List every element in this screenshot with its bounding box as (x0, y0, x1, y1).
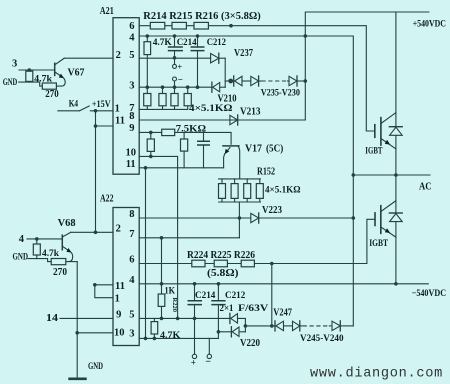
svg-text:1: 1 (115, 293, 120, 304)
svg-text:−: − (205, 356, 211, 367)
svg-text:IGBT: IGBT (365, 147, 383, 157)
svg-text:4: 4 (19, 234, 25, 245)
svg-text:+: + (178, 63, 183, 72)
svg-text:270: 270 (53, 267, 67, 278)
svg-text:11: 11 (115, 115, 125, 126)
svg-text:R214 R215 R216 (3×5.8Ω): R214 R215 R216 (3×5.8Ω) (143, 11, 260, 22)
svg-text:A21: A21 (100, 5, 114, 17)
svg-text:+: + (191, 357, 196, 367)
svg-text:1: 1 (115, 104, 120, 115)
svg-text:V213: V213 (240, 107, 261, 118)
svg-text:1K: 1K (165, 286, 176, 296)
svg-text:5: 5 (129, 309, 134, 320)
svg-text:+15V: +15V (92, 100, 111, 110)
svg-text:4.7k: 4.7k (42, 249, 60, 259)
svg-text:8: 8 (129, 209, 134, 220)
svg-text:V220: V220 (240, 338, 260, 349)
svg-text:(5C): (5C) (266, 143, 283, 154)
svg-text:8: 8 (129, 111, 134, 122)
svg-text:GND: GND (3, 78, 18, 88)
svg-text:V245-V240: V245-V240 (300, 334, 344, 344)
svg-text:V68: V68 (58, 218, 76, 229)
svg-text:3: 3 (12, 59, 17, 70)
svg-text:V247: V247 (273, 308, 292, 319)
svg-text:V237: V237 (234, 48, 253, 59)
svg-text:+540VDC: +540VDC (413, 20, 446, 30)
svg-text:R224 R225 R226: R224 R225 R226 (187, 250, 255, 261)
svg-text:11: 11 (115, 281, 125, 292)
svg-text:9: 9 (116, 309, 121, 320)
svg-text:R220: R220 (171, 298, 178, 312)
svg-text:4×5.1KΩ: 4×5.1KΩ (265, 186, 301, 196)
svg-text:5: 5 (129, 50, 134, 61)
svg-text:C212: C212 (207, 38, 227, 48)
svg-text:270: 270 (45, 89, 58, 100)
svg-text:4.7K: 4.7K (160, 331, 181, 341)
svg-text:4: 4 (129, 275, 135, 286)
svg-text:GND: GND (13, 252, 29, 262)
svg-text:4×5.1KΩ: 4×5.1KΩ (189, 104, 233, 114)
svg-text:(5.8Ω): (5.8Ω) (207, 268, 239, 279)
svg-text:V17: V17 (245, 143, 262, 154)
svg-text:10: 10 (114, 328, 125, 339)
svg-text:14: 14 (46, 313, 59, 324)
svg-text:C214: C214 (177, 38, 197, 48)
svg-text:4: 4 (129, 33, 135, 44)
svg-text:2×1: 2×1 (220, 304, 234, 314)
svg-text:GND: GND (88, 362, 103, 372)
svg-text:A22: A22 (100, 192, 114, 204)
svg-text:6: 6 (129, 21, 134, 32)
svg-text:3: 3 (129, 80, 134, 91)
svg-text:3: 3 (129, 329, 134, 340)
svg-text:7: 7 (129, 229, 134, 240)
svg-text:V235-V230: V235-V230 (261, 89, 301, 99)
svg-text:V67: V67 (68, 68, 85, 79)
svg-text:V210: V210 (218, 94, 237, 105)
svg-text:C212: C212 (225, 291, 246, 301)
svg-text:11: 11 (126, 159, 136, 170)
svg-text:2: 2 (116, 50, 121, 61)
svg-text:2: 2 (116, 223, 121, 234)
svg-text:7.5KΩ: 7.5KΩ (176, 125, 207, 135)
svg-text:R152: R152 (257, 167, 275, 178)
svg-text:F/63V: F/63V (238, 304, 268, 314)
svg-text:−540VDC: −540VDC (412, 289, 447, 299)
svg-text:9: 9 (129, 123, 134, 134)
svg-text:C214: C214 (195, 291, 216, 301)
svg-text:10: 10 (125, 148, 136, 159)
svg-text:4.7k: 4.7k (34, 74, 53, 84)
svg-text:V223: V223 (262, 205, 282, 216)
svg-text:AC: AC (419, 181, 432, 193)
svg-text:IGBT: IGBT (369, 239, 388, 249)
svg-text:−: − (178, 74, 183, 84)
svg-text:www.diangon.com: www.diangon.com (310, 366, 443, 382)
svg-text:K4: K4 (69, 100, 79, 110)
svg-text:6: 6 (129, 255, 134, 266)
svg-text:4.7K: 4.7K (153, 38, 173, 48)
